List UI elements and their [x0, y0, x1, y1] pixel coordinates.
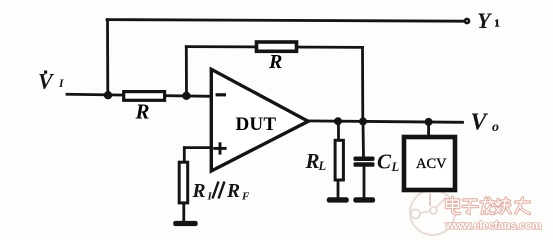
wire R_L branch top	[337, 121, 340, 140]
wire ACV stub	[427, 122, 430, 136]
wire op-amp plus input	[185, 146, 211, 149]
wire C_L to ground	[363, 167, 366, 199]
resistor R (feedback)	[257, 42, 297, 51]
wire vertical feedback down to output	[361, 47, 364, 121]
label V_I with overdot	[38, 69, 64, 94]
wire R_I//R_F to ground	[182, 204, 185, 222]
svg-text:o: o	[492, 120, 499, 135]
node junction output at ACV	[425, 118, 433, 126]
op-amp plus sign	[213, 142, 226, 154]
ACV box	[404, 137, 455, 190]
svg-text:R: R	[226, 181, 240, 202]
label R_L	[305, 149, 327, 173]
node junction output at R_L	[334, 117, 342, 125]
svg-text:R: R	[305, 149, 320, 173]
wire vertical from input node to top wire	[106, 20, 109, 96]
watermark text 电子发烧友 (simplified strokes)	[447, 198, 530, 214]
watermark logo circle	[410, 190, 455, 235]
svg-text:F: F	[241, 191, 250, 203]
node junction at inverting input node	[182, 92, 190, 100]
svg-text:L: L	[318, 159, 327, 173]
svg-text:R: R	[192, 181, 206, 202]
terminal dot Y1	[465, 19, 469, 23]
label R_I // R_F	[192, 181, 251, 203]
op-amp U1 DUT triangle	[211, 69, 308, 171]
resistor R_I//R_F	[179, 162, 188, 203]
label V_o	[471, 110, 500, 136]
svg-text:V: V	[471, 110, 489, 136]
resistor R_L	[335, 140, 343, 180]
wire vertical plus input down to R_I//R_F	[183, 148, 186, 162]
ground under R_I//R_F	[173, 221, 198, 226]
resistor R (input)	[124, 92, 165, 101]
wire C_L branch top	[362, 122, 365, 158]
wire output horizontal	[307, 121, 463, 122]
label Y_1	[477, 8, 500, 33]
ground under C_L	[353, 197, 375, 202]
wire feedback line horizontal	[186, 45, 362, 49]
svg-text:DUT: DUT	[236, 114, 277, 135]
svg-text:L: L	[391, 160, 400, 174]
node junction at input node	[104, 91, 112, 99]
svg-text:R: R	[268, 51, 282, 73]
svg-text:I: I	[58, 78, 64, 90]
svg-text:ACV: ACV	[416, 156, 447, 172]
wire top Y1 net horizontal	[107, 20, 464, 22]
svg-text:C: C	[377, 150, 392, 174]
op-amp minus sign	[216, 93, 226, 96]
ground under R_L	[327, 197, 349, 202]
svg-text:I: I	[207, 191, 213, 203]
wire input V_I horizontal	[67, 94, 211, 96]
wire vertical from inverting node up to feedback line	[185, 47, 188, 96]
node junction output at C_L	[359, 117, 367, 125]
label C_L	[377, 150, 400, 175]
wire R_L to ground	[337, 181, 340, 199]
svg-text:R: R	[135, 100, 150, 124]
capacitor C_L plates	[354, 157, 375, 167]
svg-text:1: 1	[495, 19, 500, 30]
svg-text:www.elecfans.com: www.elecfans.com	[445, 220, 542, 232]
